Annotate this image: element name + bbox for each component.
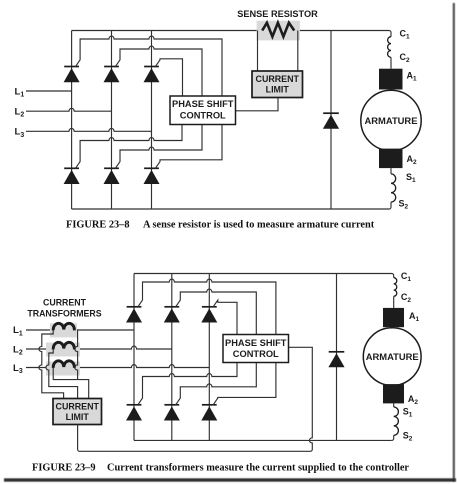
wire: bottom DC bus (fig 23-9) xyxy=(134,439,392,441)
wire: gate Q2 to phase shift control xyxy=(115,46,202,96)
current limit box U2 (fig 23-8) xyxy=(252,71,303,98)
current transformer CT3 core (fig 23-9) xyxy=(46,362,80,376)
armature circle (fig 23-8) xyxy=(361,90,421,150)
commutating field coil C1-C2 (fig 23-9) xyxy=(394,278,397,297)
wire: brush to series field (fig 23-8) xyxy=(390,168,392,174)
wire: resistor left tap to current limit xyxy=(257,31,259,72)
sense resistor R1 (fig 23-8) xyxy=(257,21,300,41)
SCR Q5 bottom column 2 (fig 23-8) xyxy=(104,168,120,184)
wire: gate Q5 to phase shift control xyxy=(115,125,202,169)
svg-text:SENSE RESISTOR: SENSE RESISTOR xyxy=(237,9,318,19)
current transformer CT2 core (fig 23-9) xyxy=(46,343,80,357)
wire: top DC bus (fig 23-9) xyxy=(134,274,394,278)
wire: top DC bus left of sense resistor (fig 23-8) xyxy=(72,30,263,32)
wire: bridge column 1 (fig 23-9) xyxy=(133,274,135,441)
diode D1 freewheeling (fig 23-9) xyxy=(328,352,344,368)
wire: CT1 secondary tap to current limit (fig 23-9) xyxy=(39,330,64,399)
wire: diode branch (fig 23-8) xyxy=(330,31,332,210)
svg-text:ARMATURE: ARMATURE xyxy=(366,351,419,362)
wire: bridge column 2 (fig 23-8) xyxy=(111,31,113,210)
SCR Q4 bottom column 1 (fig 23-9) xyxy=(126,405,142,421)
svg-text:LIMIT: LIMIT xyxy=(266,85,290,95)
wire: gate Q6 to phase shift control (fig 23-9) xyxy=(213,363,276,406)
wire: CT2 secondary tap to current limit (fig 23-9) xyxy=(46,349,78,399)
CT1 winding (fig 23-9) xyxy=(53,323,74,330)
wire: coil to brush block (fig 23-8) xyxy=(390,57,392,68)
wire: bridge column 2 (fig 23-9) xyxy=(171,274,173,441)
SCR Q4 bottom column 1 (fig 23-8) xyxy=(64,168,80,184)
svg-text:CONTROL: CONTROL xyxy=(180,111,226,121)
wire: CT1 right-side tap (fig 23-9) xyxy=(75,330,78,380)
SCR Q6 bottom column 3 (fig 23-8) xyxy=(144,168,160,184)
wire: current limit output to phase shift control (fig 23-8) xyxy=(236,98,279,111)
page shadow right edge xyxy=(453,3,455,482)
SCR Q5 bottom column 2 (fig 23-9) xyxy=(164,405,180,421)
wire: brush to series field (fig 23-9) xyxy=(393,403,395,407)
wire: gate Q4 to phase shift control (fig 23-9) xyxy=(138,363,237,406)
wire: gate Q4 to phase shift control xyxy=(75,125,182,169)
wire: gate Q1 to phase shift control xyxy=(75,36,222,96)
wire: L2 phase input, hops over column 1 (fig 23-8) xyxy=(26,108,112,111)
wire: gate Q5 to phase shift control (fig 23-9) xyxy=(176,363,257,406)
wire: gate Q3 to phase shift control (fig 23-9) xyxy=(213,300,237,334)
wire: bridge column 3 (fig 23-9) xyxy=(208,274,210,441)
CT2 winding (fig 23-9) xyxy=(53,342,74,349)
SCR Q1 top column 1 (fig 23-9) xyxy=(126,307,142,323)
SCR Q2 top column 2 (fig 23-9) xyxy=(164,307,180,323)
brush block A1 (fig 23-8) xyxy=(379,69,403,90)
svg-text:PHASE SHIFT: PHASE SHIFT xyxy=(225,338,287,348)
wire: L2 phase input, hop over column 1 (fig 23-9) xyxy=(26,346,172,349)
armature circle (fig 23-9) xyxy=(363,328,421,386)
brush block A2 (fig 23-8) xyxy=(379,149,403,169)
wire: top DC bus right of sense resistor to armature (fig 23-8) xyxy=(294,31,391,37)
current limit box U2 (fig 23-9) xyxy=(53,399,102,425)
wire: L1 phase input through CT1 (fig 23-9) xyxy=(26,329,134,331)
wire: series field to bottom bus (fig 23-9) xyxy=(392,435,394,440)
wire: CT3 secondary tap to current limit (fig 23-9) xyxy=(53,368,88,399)
wire: L3 phase input, hops over columns 1-2 (fig 23-8) xyxy=(26,128,152,131)
wire: series field to bottom bus (fig 23-8) xyxy=(389,202,391,209)
SCR Q3 top column 3 (fig 23-8) xyxy=(144,67,160,83)
diode D1 freewheeling (fig 23-8) xyxy=(323,113,339,129)
svg-text:TRANSFORMERS: TRANSFORMERS xyxy=(27,309,101,319)
svg-text:PHASE SHIFT: PHASE SHIFT xyxy=(172,99,234,109)
svg-text:LIMIT: LIMIT xyxy=(66,412,90,422)
SCR Q2 top column 2 (fig 23-8) xyxy=(104,67,120,83)
wire: bridge column 1 (fig 23-8) xyxy=(71,31,73,210)
CT3 winding (fig 23-9) xyxy=(53,361,74,368)
series field coil S1-S2 (fig 23-8) xyxy=(391,174,396,202)
page shadow bottom edge xyxy=(4,478,456,481)
wire: coil to brush block (fig 23-9) xyxy=(393,296,395,308)
wire: L3 phase input, hops over columns 1-2 (fig 23-9) xyxy=(26,365,209,368)
SCR Q6 bottom column 3 (fig 23-9) xyxy=(201,405,217,421)
svg-text:ARMATURE: ARMATURE xyxy=(365,115,418,126)
wire: bridge column 3 (fig 23-8) xyxy=(151,31,153,210)
wire: gate Q6 to phase shift control xyxy=(155,125,222,169)
wire: bottom DC bus (fig 23-8) xyxy=(72,208,389,210)
svg-text:CURRENT: CURRENT xyxy=(256,74,300,84)
wire: diode branch (fig 23-9) xyxy=(336,274,338,441)
phase shift control box U1 (fig 23-8) xyxy=(170,96,236,125)
commutating field coil C1-C2 (fig 23-8) xyxy=(388,37,391,58)
wire: gate Q2 to phase shift control (fig 23-9) xyxy=(176,289,257,334)
SCR Q3 top column 3 (fig 23-9) xyxy=(201,307,217,323)
SCR Q1 top column 1 (fig 23-8) xyxy=(64,67,80,83)
current transformer CT1 core (fig 23-9) xyxy=(50,323,77,337)
svg-text:Current transformers measure t: Current transformers measure the current… xyxy=(107,463,409,474)
wire: L1 phase input (fig 23-8) xyxy=(26,90,72,92)
brush block A2 (fig 23-9) xyxy=(383,384,404,403)
series field coil S1-S2 (fig 23-9) xyxy=(394,407,399,435)
svg-text:CURRENT: CURRENT xyxy=(56,402,100,412)
wire: current limit output to phase shift control (fig 23-9) xyxy=(78,347,313,451)
svg-text:A sense resistor is used to me: A sense resistor is used to measure arma… xyxy=(143,220,375,231)
svg-text:CONTROL: CONTROL xyxy=(233,349,279,359)
brush block A1 (fig 23-9) xyxy=(383,308,404,327)
svg-text:FIGURE 23–9: FIGURE 23–9 xyxy=(32,463,96,474)
wire: gate Q3 to phase shift control xyxy=(155,59,182,96)
wire: resistor right tap to current limit xyxy=(297,31,299,72)
svg-text:CURRENT: CURRENT xyxy=(43,297,87,307)
phase shift control box U1 (fig 23-9) xyxy=(223,335,289,363)
svg-text:FIGURE 23–8: FIGURE 23–8 xyxy=(66,220,130,231)
wire: gate Q1 to phase shift control (fig 23-9) xyxy=(138,279,276,334)
